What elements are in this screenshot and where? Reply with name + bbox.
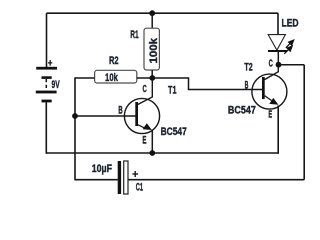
node T1 base junction: [72, 113, 78, 119]
wire R2 right lead: [137, 77, 153, 79]
svg-text:B: B: [245, 79, 249, 91]
LED light arrow 2: [284, 46, 292, 54]
LED D1 cathode bar: [268, 50, 287, 52]
LED light arrow 1: [286, 40, 294, 48]
node T1 collector junction: [149, 75, 155, 81]
wire T1 emitter lead: [151, 130, 153, 153]
transistor T1 base bar: [135, 102, 138, 126]
wire T2 emitter lead: [277, 105, 279, 153]
battery BT1 plate 3 long: [36, 91, 57, 94]
transistor T1 circle: [124, 98, 159, 133]
wire R1 top lead: [151, 13, 153, 28]
wire bottom branch left: [75, 179, 118, 181]
wire T1 collector lead: [138, 78, 153, 105]
wire LED anode: [277, 13, 279, 34]
svg-text:10µF: 10µF: [92, 163, 113, 175]
svg-text:LED: LED: [282, 17, 299, 29]
svg-text:9V: 9V: [52, 79, 61, 91]
wire T2 collector lead: [265, 65, 279, 80]
svg-text:E: E: [142, 135, 146, 147]
resistor R1 body: [144, 28, 159, 70]
battery plus sign: [48, 60, 52, 66]
wire left branch vertical: [74, 77, 76, 180]
wire bottom branch right: [128, 179, 304, 181]
wire battery top lead: [46, 13, 48, 67]
wire T1 emitter diagonal: [138, 125, 146, 129]
svg-text:C1: C1: [136, 181, 143, 193]
wire R2 left lead: [75, 77, 95, 79]
svg-text:R1: R1: [130, 29, 138, 41]
svg-text:100k: 100k: [148, 37, 160, 63]
svg-text:E: E: [268, 109, 272, 121]
battery cell dashed link: [45, 79, 47, 91]
svg-text:T1: T1: [168, 85, 177, 97]
svg-text:T2: T2: [244, 62, 252, 74]
svg-text:BC547: BC547: [161, 126, 187, 138]
wire LED cathode to node: [277, 51, 279, 65]
wire T2 emitter diagonal: [265, 96, 272, 101]
battery BT1 plate 4 short: [42, 100, 52, 103]
svg-text:10k: 10k: [105, 72, 119, 84]
capacitor C1 plate left: [118, 161, 121, 194]
node T1 emitter ground: [149, 150, 155, 156]
LED D1 triangle: [268, 35, 285, 51]
battery BT1 plate 1 long: [36, 67, 57, 70]
resistor R2 body: [95, 70, 137, 83]
wire battery bottom lead: [45, 102, 47, 153]
wire right branch vertical: [303, 65, 305, 180]
transistor T1 emitter arrow: [143, 123, 152, 130]
transistor T2 base bar: [262, 77, 265, 99]
svg-text:C: C: [143, 83, 148, 95]
transistor T2 circle: [252, 74, 287, 109]
node T2 collector: [276, 62, 282, 68]
svg-text:C: C: [269, 58, 273, 70]
wire T1 base: [75, 115, 136, 117]
wire ground rail: [46, 152, 278, 154]
wire right branch horizontal: [279, 64, 305, 66]
wire top rail: [47, 12, 279, 14]
capacitor C1 plate right: [124, 161, 128, 194]
battery BT1 plate 2 short: [42, 76, 52, 79]
wire R1 bottom lead: [151, 70, 153, 78]
svg-text:BC547: BC547: [228, 105, 256, 117]
svg-text:B: B: [118, 104, 123, 116]
transistor T2 emitter arrow: [269, 98, 278, 105]
capacitor C1 plus sign: [132, 171, 138, 177]
wire step to T2 base: [152, 78, 262, 90]
node R1 top: [149, 10, 155, 16]
svg-text:R2: R2: [109, 55, 119, 67]
